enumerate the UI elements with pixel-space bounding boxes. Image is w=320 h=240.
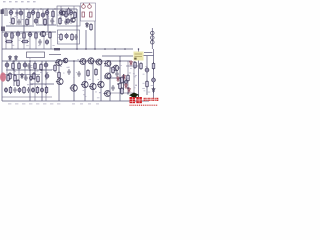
capacitor C17 xyxy=(38,39,41,45)
resistor R54 xyxy=(112,66,115,74)
title speck 2 xyxy=(15,1,18,2)
node b2 xyxy=(29,69,31,71)
diode D4 xyxy=(117,76,120,82)
title speck 5 xyxy=(33,1,36,2)
wire left rail xyxy=(1,9,3,101)
diode D6 xyxy=(123,74,126,80)
capacitor C35 xyxy=(31,87,34,93)
capacitor C34 xyxy=(27,87,30,93)
wire lead M4 xyxy=(29,32,31,49)
capacitor C21 xyxy=(44,62,48,69)
capacitor C2 xyxy=(15,10,18,16)
resistor R41 xyxy=(121,87,124,95)
diode D9 xyxy=(9,55,12,61)
section box amp stage A xyxy=(57,6,80,26)
wire lead M2 xyxy=(17,32,19,49)
node m4 xyxy=(92,60,94,62)
title speck 1 xyxy=(9,1,12,2)
connector P1 xyxy=(0,72,6,81)
wire horizontal H5 xyxy=(6,69,52,71)
wire bottom ground bus xyxy=(2,100,149,102)
capacitor C22 xyxy=(45,73,49,80)
resistor R31 xyxy=(121,76,124,84)
capacitor C38 xyxy=(74,34,77,40)
capacitor C31 xyxy=(64,19,67,25)
node k2 xyxy=(123,81,125,83)
transistor Q2 xyxy=(70,18,75,22)
wire lead T4 xyxy=(32,9,34,25)
transistor Q11 xyxy=(70,85,78,92)
title speck 4 xyxy=(27,1,30,2)
capacitor C19 xyxy=(5,62,9,69)
resistor R40 xyxy=(127,74,130,82)
node k3 xyxy=(127,87,129,89)
wire lead B3 xyxy=(34,61,36,80)
terminal block TB1 xyxy=(1,27,5,32)
transistor Q8 xyxy=(87,58,94,64)
capacitor C37 xyxy=(24,75,27,81)
capacitor C7 xyxy=(59,9,63,16)
wire link H10 xyxy=(2,96,52,98)
node bead3 xyxy=(26,8,27,9)
resistor R4 xyxy=(65,10,68,18)
transistor Q19 xyxy=(62,58,68,63)
resistor R14 xyxy=(23,32,26,40)
wire lead B2 xyxy=(24,61,26,80)
resistor R28 xyxy=(54,64,57,72)
resistor R3 xyxy=(52,10,55,18)
input connector J1 xyxy=(1,10,4,15)
wire lead T5 xyxy=(37,9,39,24)
node n4 xyxy=(124,48,126,50)
wire vertical V11 xyxy=(73,61,75,101)
wire vertical V15 xyxy=(29,61,31,101)
wire lead A2 xyxy=(73,6,75,16)
wire lead T7 xyxy=(46,9,48,24)
transistor Q14 xyxy=(104,61,111,67)
capacitor C26 xyxy=(77,71,80,77)
wire vertical V3 xyxy=(47,9,49,32)
resistor R52 xyxy=(40,63,43,71)
section box amp stage B xyxy=(81,3,96,21)
transistor Q6 xyxy=(55,59,62,65)
capacitor C15 xyxy=(28,31,32,38)
transistor Q7 xyxy=(79,59,86,65)
node bead1 xyxy=(12,8,13,9)
wire link H9 xyxy=(110,67,120,69)
node b4 xyxy=(109,77,111,79)
resistor R48 xyxy=(7,74,10,82)
logo glyph 1 xyxy=(130,97,136,103)
wire vertical V4 xyxy=(94,21,96,49)
logo glyph 2 xyxy=(136,97,142,103)
resistor R7 xyxy=(26,18,29,26)
wire lead T10 xyxy=(65,9,67,24)
node m1 xyxy=(58,60,60,62)
resistor R25 xyxy=(17,79,20,87)
diode D10 xyxy=(15,55,18,61)
node b1 xyxy=(13,69,15,71)
resistor R32 xyxy=(140,62,143,70)
capacitor C11 xyxy=(50,18,53,24)
transistor Q15 xyxy=(104,73,111,79)
wire lead R0 xyxy=(127,61,129,95)
wire mid long bus xyxy=(2,48,133,50)
fuse F1 xyxy=(54,48,60,50)
resistor R17 xyxy=(60,33,63,41)
node m6 xyxy=(119,60,121,62)
node n7 xyxy=(76,48,78,50)
node n5 xyxy=(138,48,140,50)
wire mid bus upper xyxy=(2,31,56,33)
wire lead T2 xyxy=(20,9,22,25)
wire horizontal H1 xyxy=(6,25,34,27)
capacitor C4 xyxy=(31,9,35,16)
diode D3 xyxy=(130,60,133,66)
capacitor C28 xyxy=(145,67,149,74)
wire vertical V6 xyxy=(109,61,111,101)
wire lead T6 xyxy=(42,9,44,24)
node b6 xyxy=(127,92,129,94)
resistor R21 xyxy=(18,62,21,70)
wire lead A1 xyxy=(60,6,62,11)
wire vertical V16 xyxy=(41,61,43,101)
capacitor C9 xyxy=(17,19,20,25)
logo cap icon xyxy=(129,93,139,98)
wire link H12 xyxy=(104,65,110,67)
transformer T1 xyxy=(5,10,7,16)
transistor Q12 xyxy=(81,81,88,87)
node k1 xyxy=(119,77,121,79)
capacitor C36 xyxy=(40,87,43,93)
node m5 xyxy=(109,60,111,62)
diode D1 xyxy=(86,22,89,28)
resistor R50 xyxy=(71,33,74,41)
wire coil branch xyxy=(151,28,153,49)
capacitor C8 xyxy=(69,9,73,16)
wire horizontal H3 xyxy=(102,55,133,57)
node k4 xyxy=(117,83,119,85)
node bead4 xyxy=(33,8,34,9)
resistor R38 xyxy=(87,69,90,77)
resistor R9 xyxy=(59,17,62,25)
transistor Q3 xyxy=(82,3,86,8)
node bead6 xyxy=(47,8,48,9)
resistor R19 xyxy=(21,40,29,43)
transistor Q1 xyxy=(60,11,65,15)
wire lead T11 xyxy=(70,9,72,24)
diode D8 xyxy=(128,87,131,93)
wire vertical V13 xyxy=(92,61,94,101)
resistor R8 xyxy=(44,18,47,26)
diode D5 xyxy=(152,87,155,93)
wire lead B0 xyxy=(6,61,8,80)
wire lead T1 xyxy=(16,9,18,25)
wire lead B1 xyxy=(18,61,20,80)
node n1 xyxy=(94,48,96,50)
wire lead B6 xyxy=(34,61,36,101)
wire lead M5 xyxy=(35,32,37,49)
capacitor C24 xyxy=(13,87,16,93)
wire vertical V5 xyxy=(85,30,87,49)
transistor Q10 xyxy=(56,78,63,84)
wire lead M3 xyxy=(23,32,25,49)
resistor R24 xyxy=(33,72,36,80)
resistor R6 xyxy=(12,17,15,25)
resistor R35 xyxy=(152,62,155,70)
transistor Q18 xyxy=(97,81,104,87)
node m8 xyxy=(29,60,31,62)
wire vertical V8 xyxy=(138,49,140,101)
wire link H11 xyxy=(2,74,40,76)
node bead8 xyxy=(61,8,62,9)
wire lead T0 xyxy=(10,9,12,25)
node bead5 xyxy=(40,8,41,9)
wire horizontal H4 xyxy=(104,77,126,79)
wire vertical V9 xyxy=(146,56,148,95)
resistor R1 xyxy=(28,11,31,19)
capacitor C27 xyxy=(124,79,127,85)
transistor Q17 xyxy=(104,91,111,97)
node bead2 xyxy=(19,8,20,9)
capacitor C33 xyxy=(18,87,21,93)
wire horizontal H2 xyxy=(36,24,56,26)
node n3 xyxy=(114,48,116,50)
capacitor C41 xyxy=(111,85,114,91)
transistor Q13 xyxy=(89,83,96,89)
wire lead T8 xyxy=(52,9,54,24)
resistor R39 xyxy=(95,68,98,76)
title speck 0 xyxy=(3,1,6,2)
capacitor C25 xyxy=(67,69,70,75)
wire vertical V17 xyxy=(100,61,102,101)
resistor R15 xyxy=(35,32,38,40)
transistor Q5 xyxy=(39,31,45,36)
node bead0 xyxy=(5,8,6,9)
capacitor C39 xyxy=(27,63,30,69)
logo url line xyxy=(130,105,158,106)
resistor R36 xyxy=(119,82,122,90)
wire lead T9 xyxy=(60,9,62,24)
resistor R11 xyxy=(90,12,93,17)
node m7 xyxy=(13,60,15,62)
capacitor C1 xyxy=(9,9,13,16)
node bead9 xyxy=(68,8,69,9)
wire lead B5 xyxy=(45,61,47,101)
resistor R51 xyxy=(12,62,15,70)
node n2 xyxy=(104,48,106,50)
wire yellow-out xyxy=(144,55,154,57)
capacitor C13 xyxy=(4,32,8,39)
inductor L1 xyxy=(151,31,155,44)
capacitor C12 xyxy=(66,18,70,25)
diode D2 xyxy=(21,73,24,79)
node m9 xyxy=(100,60,102,62)
wire vertical V14 xyxy=(13,61,15,86)
resistor R26 xyxy=(9,86,12,94)
capacitor C14 xyxy=(16,31,20,38)
capacitor C18 xyxy=(65,33,68,39)
node bead7 xyxy=(54,8,55,9)
wire vertical V10 xyxy=(58,61,60,101)
resistor R12 xyxy=(90,23,93,31)
highlight label IC1 xyxy=(134,52,144,61)
capacitor C10 xyxy=(34,18,38,25)
wire vertical V2 xyxy=(23,9,25,32)
transistor Q9 xyxy=(95,59,102,65)
wire horizontal H6 xyxy=(30,83,54,85)
resistor R10 xyxy=(82,12,85,17)
resistor R27 xyxy=(23,86,26,94)
wire top supply bus xyxy=(2,8,77,10)
capacitor C32 xyxy=(115,71,118,77)
capacitor C29 xyxy=(152,77,156,84)
resistor R34 xyxy=(146,80,149,88)
node m2 xyxy=(73,60,75,62)
wire vertical V12 xyxy=(84,61,86,101)
resistor R43 xyxy=(123,74,125,90)
wire lead M0 xyxy=(5,32,7,49)
capacitor C23 xyxy=(4,87,7,93)
capacitor C5 xyxy=(41,12,45,19)
resistor R37 xyxy=(67,8,70,16)
capacitor C3 xyxy=(19,10,23,17)
resistor R53 xyxy=(14,74,17,82)
wire lead R1 xyxy=(133,61,135,95)
transistor Q16 xyxy=(112,65,119,71)
capacitor C20 xyxy=(23,62,27,69)
resistor R13 xyxy=(11,32,14,40)
resistor R22 xyxy=(34,62,37,70)
wire lead M7 xyxy=(50,32,52,49)
resistor R20 xyxy=(49,54,61,56)
capacitor C16 xyxy=(45,39,48,45)
resistor R18 xyxy=(5,40,13,43)
wire lead M6 xyxy=(43,32,45,49)
wire lead M1 xyxy=(11,32,13,49)
resistor R16 xyxy=(49,31,52,39)
node n6 xyxy=(85,48,87,50)
node b5 xyxy=(119,77,121,79)
relay K1 xyxy=(27,52,45,58)
resistor R49 xyxy=(37,75,40,83)
node m3 xyxy=(84,60,86,62)
transistor Q4 xyxy=(88,3,92,8)
wire lead T3 xyxy=(28,9,30,25)
resistor R23 xyxy=(9,72,12,80)
resistor R47 xyxy=(45,86,48,94)
wire vertical V1 xyxy=(76,9,78,49)
wire lower bus xyxy=(2,60,130,62)
capacitor C6 xyxy=(45,9,49,16)
wire right rail xyxy=(153,49,155,101)
wire link H8 xyxy=(126,65,139,67)
resistor R2 xyxy=(37,11,40,19)
resistor R46 xyxy=(36,86,39,94)
resistor R5 xyxy=(74,11,77,19)
resistor R29 xyxy=(58,71,61,79)
title speck 3 xyxy=(21,1,24,2)
resistor R30 xyxy=(134,61,137,69)
wire lead B4 xyxy=(45,61,47,80)
wire coil link xyxy=(144,52,152,54)
wire link H7 xyxy=(104,92,134,94)
wire vertical V7 xyxy=(119,56,121,101)
diode D7 xyxy=(125,83,128,89)
component value labels xyxy=(5,12,153,105)
node b3 xyxy=(41,69,43,71)
logo wordmark xyxy=(144,98,159,101)
section box amp stage C xyxy=(58,30,80,44)
capacitor C40 xyxy=(29,75,32,81)
